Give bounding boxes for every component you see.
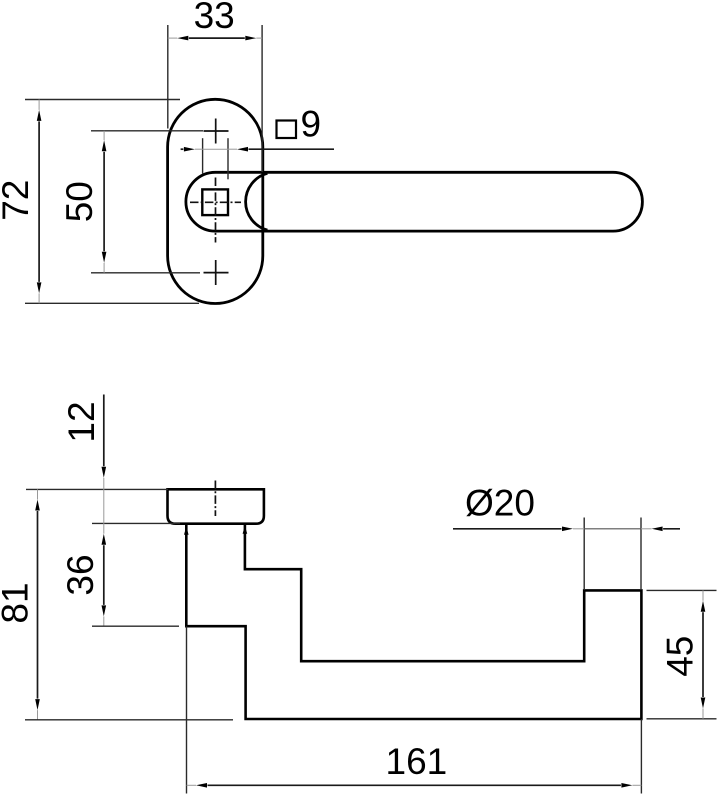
dimension 72: dimension line with arrows — [37, 100, 42, 304]
dimension 33: dimension line with arrows — [168, 36, 262, 41]
svg-text:72: 72 — [0, 180, 36, 221]
svg-text:50: 50 — [59, 181, 100, 222]
cap centerline (side view) — [214, 481, 216, 517]
dimension 161: dimension line with arrows — [187, 783, 642, 788]
dimension 36: dimension line with arrows — [102, 523, 107, 626]
dimension square 9: extension lines — [202, 138, 204, 173]
dimension diameter 20: dimension line with outside arrows — [453, 527, 680, 532]
small arrow mark on neck right line — [243, 526, 248, 534]
square spindle hole 9mm — [202, 189, 228, 215]
dimension 81 bottom extension line — [25, 719, 233, 721]
dimension 12/36 shared extension line at cap bottom — [92, 522, 180, 524]
svg-text:9: 9 — [301, 104, 322, 145]
svg-text:36: 36 — [60, 554, 101, 595]
small arrow mark on neck left line — [184, 527, 189, 535]
bottom screw hole crosshair — [204, 260, 229, 285]
dimension 72: extension lines — [25, 99, 180, 101]
top screw hole crosshair — [204, 119, 229, 144]
svg-text:161: 161 — [386, 741, 448, 782]
svg-text:Ø20: Ø20 — [465, 483, 535, 524]
svg-text:45: 45 — [659, 636, 700, 677]
svg-text:33: 33 — [194, 0, 235, 36]
handle neck + lever outline (top view) — [186, 172, 643, 231]
dimension diameter 20: extension lines — [583, 518, 585, 591]
dimension 12/81 shared top extension line — [26, 488, 168, 490]
dimension 45: extension lines — [647, 589, 717, 591]
rose oval outline (top view) — [168, 99, 263, 303]
centerline vertical through square hole — [215, 178, 217, 243]
rose cap (side view) — [168, 489, 264, 523]
centerline horizontal through square hole — [190, 201, 241, 203]
dimension 36 bottom extension line — [92, 625, 179, 627]
svg-text:81: 81 — [0, 582, 36, 623]
dimension 50: extension lines — [91, 130, 203, 132]
lever left end seam arc — [246, 173, 268, 230]
handle profile outline (side view) — [186, 524, 641, 719]
svg-text:12: 12 — [61, 401, 102, 442]
dimension 161: extension lines — [186, 626, 188, 793]
dimension 50: dimension line with arrows — [102, 131, 107, 273]
dimension 45: dimension line with arrows — [701, 590, 706, 718]
dimension 12: dimension line with arrows — [102, 395, 107, 524]
dimension 81: dimension line with arrows — [35, 489, 40, 719]
dimension square 9: dimension/leader line with outside arrows — [181, 147, 334, 152]
dimension 33: extension lines — [167, 25, 169, 129]
square symbol for 9mm — [277, 121, 297, 139]
